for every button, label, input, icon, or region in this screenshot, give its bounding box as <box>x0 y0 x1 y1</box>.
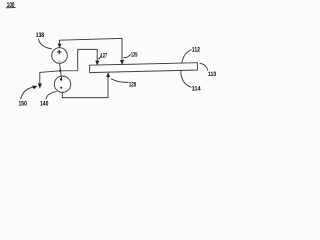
leader of label 112 <box>182 50 191 63</box>
label 127 <box>101 53 108 60</box>
label 114 <box>192 85 201 92</box>
label 150 <box>19 100 28 107</box>
wire from adder 138 top to arrow 125 (feedback line) <box>60 38 123 60</box>
leader of label 140 <box>46 92 56 99</box>
leader of label 127 <box>98 56 100 59</box>
label 140 <box>40 100 49 107</box>
label 120 <box>129 81 137 88</box>
label 125 <box>131 52 138 59</box>
mark top inside 140 <box>60 78 62 80</box>
leader of label 125 <box>124 55 131 58</box>
arrowhead 125 into rod top <box>120 60 123 64</box>
label 112 <box>192 47 201 54</box>
arrowhead 127 into rod top <box>96 61 99 65</box>
rod 110 (laser rod, tilted bar) <box>90 63 198 73</box>
leader of label 114 <box>181 70 191 87</box>
small mark bottom inside 138 <box>59 60 61 62</box>
plus sign inside 138 <box>57 50 61 54</box>
svg-text:138: 138 <box>36 32 45 39</box>
wire adder 140 bottom to arrow 120 (under the rod) <box>62 77 108 98</box>
leader of label 120 <box>111 79 128 82</box>
wire junction to arrow 127 (right branch up and over) <box>60 49 97 70</box>
summing junction 138 <box>52 48 68 64</box>
svg-text:127: 127 <box>101 53 108 60</box>
wire junction to output arrow 150 (left branch) <box>40 71 60 84</box>
output arrowhead 150 <box>38 84 41 88</box>
leader of label 110 <box>200 63 208 70</box>
underline of label 100 <box>6 7 15 9</box>
summing junction 140 <box>54 76 70 92</box>
mark bottom inside 140 <box>60 87 62 89</box>
svg-text:120: 120 <box>129 81 137 88</box>
svg-text:112: 112 <box>192 47 201 54</box>
svg-text:150: 150 <box>19 100 28 107</box>
wire adder 138 bottom to adder 140 top <box>60 63 62 78</box>
label 138 <box>36 32 45 39</box>
arrowhead 120 into rod bottom <box>106 73 109 77</box>
node junction dot <box>59 70 61 72</box>
leader of label 138 <box>39 39 52 49</box>
svg-text:114: 114 <box>192 85 201 92</box>
svg-text:110: 110 <box>208 71 217 78</box>
label 110 <box>208 71 217 78</box>
arrow into adder 138 top <box>59 40 61 45</box>
leader of label 150 with arrowhead <box>21 87 34 99</box>
svg-text:125: 125 <box>131 52 138 59</box>
svg-text:140: 140 <box>40 100 49 107</box>
label 100 <box>7 2 15 9</box>
